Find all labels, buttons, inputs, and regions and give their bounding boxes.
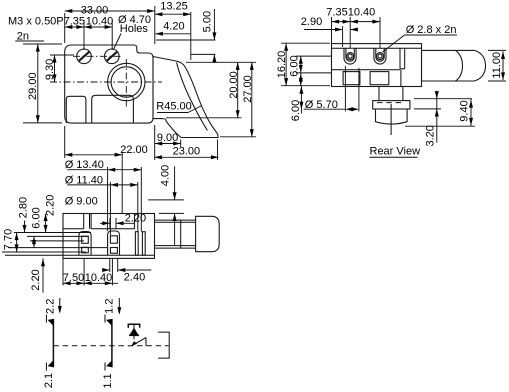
svg-text:27.00: 27.00 xyxy=(242,75,254,103)
svg-text:2.2: 2.2 xyxy=(45,299,57,314)
svg-text:2.90: 2.90 xyxy=(301,16,322,28)
svg-text:13.25: 13.25 xyxy=(160,1,188,13)
svg-text:M3 x 0.50P: M3 x 0.50P xyxy=(8,16,64,28)
svg-text:Ø 9.00: Ø 9.00 xyxy=(65,196,98,208)
svg-text:2.20: 2.20 xyxy=(125,213,146,225)
svg-text:6.00: 6.00 xyxy=(289,55,301,76)
svg-text:29.00: 29.00 xyxy=(27,72,39,100)
svg-text:3.20: 3.20 xyxy=(425,125,437,146)
svg-text:7.50: 7.50 xyxy=(63,272,84,284)
svg-text:Rear View: Rear View xyxy=(370,145,421,157)
svg-text:7.35: 7.35 xyxy=(64,16,85,28)
svg-text:5.00: 5.00 xyxy=(202,11,214,32)
svg-text:1.1: 1.1 xyxy=(102,373,114,388)
svg-text:11.00: 11.00 xyxy=(491,52,503,79)
svg-text:R45.00: R45.00 xyxy=(156,101,191,113)
svg-text:9.40: 9.40 xyxy=(459,100,471,121)
svg-text:Ø 2.8 x 2n: Ø 2.8 x 2n xyxy=(406,24,457,36)
svg-text:7.70: 7.70 xyxy=(3,229,15,250)
svg-text:Ø 13.40: Ø 13.40 xyxy=(65,159,104,171)
svg-text:2.80: 2.80 xyxy=(18,197,30,218)
svg-text:7.35: 7.35 xyxy=(326,6,347,18)
svg-text:10.40: 10.40 xyxy=(348,6,376,18)
svg-text:2.1: 2.1 xyxy=(43,373,55,388)
svg-text:6.00: 6.00 xyxy=(30,207,42,228)
svg-text:20.00: 20.00 xyxy=(228,71,240,99)
svg-text:23.00: 23.00 xyxy=(173,146,201,158)
svg-text:22.00: 22.00 xyxy=(120,144,148,156)
svg-text:4.00: 4.00 xyxy=(160,165,172,186)
svg-text:2n: 2n xyxy=(17,30,29,42)
svg-text:2.20: 2.20 xyxy=(30,269,42,290)
svg-text:2.40: 2.40 xyxy=(124,272,145,284)
svg-text:1.2: 1.2 xyxy=(103,299,115,314)
svg-text:4.20: 4.20 xyxy=(163,21,184,33)
svg-text:Holes: Holes xyxy=(120,23,149,35)
svg-text:2.20: 2.20 xyxy=(45,195,57,216)
